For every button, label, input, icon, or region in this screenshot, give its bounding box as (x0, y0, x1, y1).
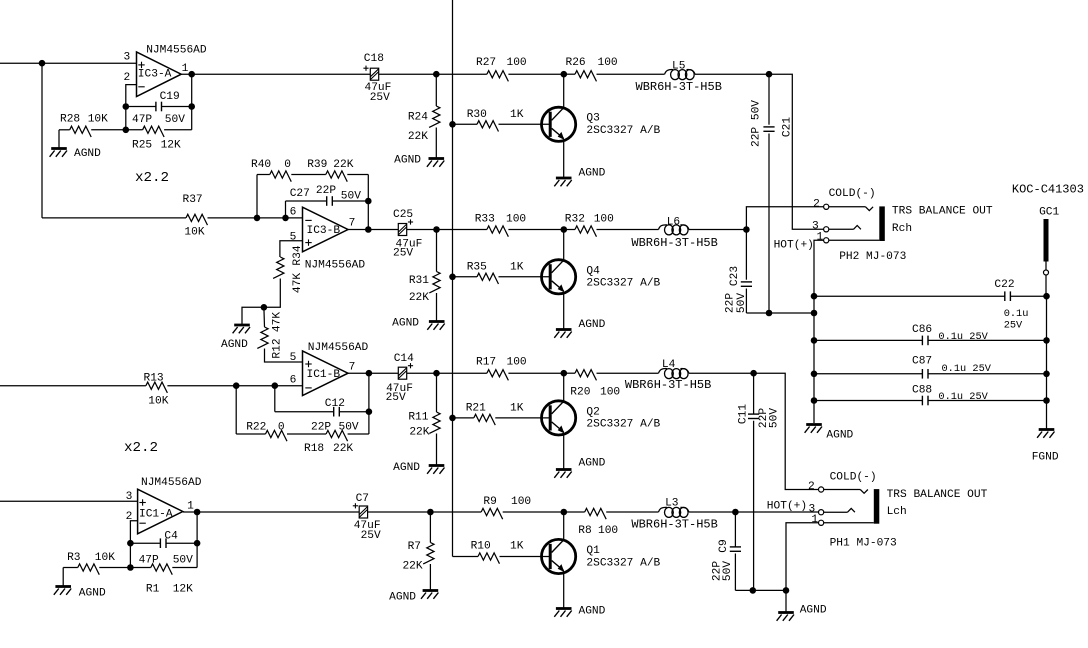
resistor R21 (449, 403, 550, 426)
svg-text:R13: R13 (144, 373, 164, 385)
node Rch ground row right (811, 310, 818, 317)
svg-text:C27: C27 (290, 188, 310, 200)
svg-text:25V: 25V (393, 248, 413, 260)
capacitor C21 (751, 74, 794, 313)
svg-text:R35: R35 (467, 262, 487, 274)
capacitor C14 (386, 353, 415, 404)
svg-text:100: 100 (506, 214, 526, 226)
svg-text:25V: 25V (386, 392, 406, 404)
resistor R22 (236, 386, 359, 442)
svg-text:AGND: AGND (74, 148, 101, 160)
svg-text:2SC3327 A/B: 2SC3327 A/B (586, 125, 660, 137)
svg-text:0.1u 25V: 0.1u 25V (938, 391, 988, 403)
ground AGND (Q3) (554, 168, 605, 187)
wire row2 to jack pin2 (746, 207, 823, 230)
wire pin2 col to R25 (125, 107, 127, 130)
capacitor C27 (286, 185, 369, 218)
svg-text:47P: 47P (139, 555, 159, 567)
svg-text:50V: 50V (722, 561, 734, 581)
wire pin1 to AGND (PH1) (785, 590, 787, 611)
svg-text:C88: C88 (912, 385, 932, 397)
resistor R31 (409, 230, 440, 321)
capacitor C88 (814, 385, 1047, 406)
svg-text:47P: 47P (132, 114, 152, 126)
svg-text:2: 2 (808, 481, 815, 493)
wire output to feedback (191, 74, 193, 106)
svg-text:NJM4556AD: NJM4556AD (305, 260, 366, 272)
ground AGND (Q2) (554, 458, 605, 478)
svg-text:12K: 12K (173, 584, 193, 596)
svg-text:0: 0 (278, 422, 285, 434)
svg-text:47K: 47K (272, 312, 284, 332)
svg-text:L3: L3 (665, 498, 678, 510)
svg-text:100: 100 (598, 57, 618, 69)
svg-text:R20: R20 (570, 387, 590, 399)
resistor R7 (402, 512, 434, 590)
svg-text:R40: R40 (251, 159, 271, 171)
resistor R12 (257, 307, 302, 362)
node row1 input junction (39, 60, 46, 67)
svg-text:1: 1 (187, 501, 194, 513)
svg-text:100: 100 (507, 57, 527, 69)
wire IC1-B output (348, 372, 398, 374)
node Lch ground row right (783, 587, 790, 594)
resistor R39 (291, 159, 368, 201)
svg-text:x2.2: x2.2 (135, 170, 169, 186)
svg-text:R26: R26 (566, 57, 586, 69)
svg-text:25V: 25V (1004, 320, 1023, 332)
wire feedback col IC3-B (367, 201, 369, 230)
svg-text:AGND: AGND (800, 605, 827, 617)
jack PH2 pin2 COLD (813, 188, 875, 211)
svg-text:AGND: AGND (579, 168, 606, 180)
svg-text:100: 100 (507, 357, 527, 369)
jack PH1 body (830, 489, 988, 549)
wire pin2 col to R1 (129, 543, 131, 567)
node Q4 collector (561, 226, 568, 233)
svg-text:50V: 50V (173, 555, 193, 567)
svg-text:100: 100 (511, 496, 531, 508)
svg-text:2SC3327 A/B: 2SC3327 A/B (586, 278, 660, 290)
wire IC1-A output (183, 511, 359, 514)
svg-text:R27: R27 (476, 57, 496, 69)
svg-text:25V: 25V (370, 92, 390, 104)
svg-text:1K: 1K (510, 541, 524, 553)
svg-text:22K: 22K (408, 131, 428, 143)
svg-text:AGND: AGND (579, 319, 606, 331)
capacitor C86 (814, 324, 1047, 345)
resistor R24 (408, 74, 440, 157)
svg-text:5: 5 (290, 232, 297, 244)
node R25 left (123, 127, 130, 134)
node C7 output (427, 509, 434, 516)
node Q2 collector (561, 370, 568, 377)
svg-text:100: 100 (600, 387, 620, 399)
wire row4 input (0, 500, 138, 502)
svg-text:Q2: Q2 (586, 406, 599, 418)
svg-text:L5: L5 (672, 61, 685, 73)
resistor R32 (564, 214, 659, 237)
wire row1 to jack pin3 (769, 74, 824, 229)
svg-text:C22: C22 (994, 279, 1014, 291)
resistor R1 (130, 543, 197, 595)
capacitor C87 (814, 356, 1047, 379)
svg-text:TRS BALANCE OUT: TRS BALANCE OUT (892, 205, 993, 217)
svg-text:R12: R12 (272, 338, 284, 358)
svg-text:22K: 22K (333, 443, 353, 455)
svg-text:22K: 22K (409, 292, 429, 304)
svg-text:10K: 10K (95, 552, 115, 564)
wire Lch ground row (735, 589, 786, 591)
jack PH1 pin1 sleeve (786, 514, 874, 591)
wire C25 to R33 (407, 229, 487, 231)
capacitor C22 (814, 279, 1047, 332)
resistor R20 (564, 370, 659, 399)
svg-text:AGND: AGND (392, 318, 419, 330)
capacitor C7 (353, 493, 381, 542)
svg-text:AGND: AGND (389, 592, 416, 604)
svg-text:10K: 10K (88, 114, 108, 126)
node C19 left (123, 103, 130, 110)
svg-text:IC1-B: IC1-B (307, 369, 341, 381)
resistor R25 (126, 107, 192, 152)
node C86 left (811, 337, 818, 344)
wire left bus to R37 (41, 63, 43, 218)
gain label x2.2 (upper) (135, 170, 169, 186)
svg-text:AGND: AGND (579, 606, 606, 618)
node C11 bottom (750, 587, 757, 594)
svg-text:x2.2: x2.2 (124, 440, 158, 456)
svg-text:Rch: Rch (892, 223, 912, 235)
ground AGND (IC3-B bias) (221, 307, 264, 351)
wire row1 input (0, 62, 137, 64)
svg-text:22K: 22K (333, 159, 353, 171)
resistor R9 (481, 496, 564, 519)
node C12 right (366, 408, 373, 415)
inductor L4 (625, 359, 754, 392)
svg-text:Q3: Q3 (586, 113, 599, 125)
svg-text:AGND: AGND (79, 588, 106, 600)
wire Rch ground row (746, 312, 814, 314)
svg-text:Lch: Lch (887, 506, 907, 518)
node C12 branch (272, 382, 279, 389)
svg-text:C4: C4 (164, 531, 178, 543)
op-amp U IC3-B (290, 207, 366, 272)
svg-text:2SC3327 A/B: 2SC3327 A/B (586, 557, 660, 569)
svg-text:C23: C23 (729, 266, 741, 286)
svg-text:1K: 1K (510, 109, 524, 121)
svg-text:12K: 12K (161, 140, 181, 152)
svg-text:L6: L6 (667, 217, 680, 229)
ground AGND (R11) (393, 462, 444, 474)
svg-text:10K: 10K (148, 396, 168, 408)
svg-text:R25: R25 (132, 140, 152, 152)
svg-text:C9: C9 (718, 539, 730, 552)
jack PH1 pin3 HOT (767, 500, 855, 515)
svg-text:50V: 50V (341, 191, 361, 203)
svg-text:R37: R37 (183, 194, 203, 206)
svg-text:1K: 1K (510, 403, 524, 415)
svg-text:WBR6H-3T-H5B: WBR6H-3T-H5B (636, 80, 722, 94)
capacitor C12 (275, 386, 369, 417)
wire IC3-B output (348, 229, 398, 231)
svg-text:AGND: AGND (221, 339, 248, 351)
wire AGND column (813, 296, 815, 423)
svg-text:R34: R34 (292, 245, 304, 265)
svg-text:0: 0 (284, 159, 291, 171)
resistor R3 (63, 552, 130, 575)
ground AGND (R7) (389, 591, 438, 604)
svg-text:AGND: AGND (394, 155, 421, 167)
node C86 right (1043, 337, 1050, 344)
svg-text:C25: C25 (393, 209, 413, 221)
svg-text:1: 1 (811, 514, 818, 526)
resistor R40 (251, 159, 291, 218)
node IC3-B output (365, 226, 372, 233)
svg-text:R3: R3 (67, 552, 80, 564)
resistor R17 (476, 357, 564, 381)
svg-text:NJM4556AD: NJM4556AD (308, 342, 369, 354)
node R40 branch (254, 215, 261, 222)
svg-text:47K: 47K (292, 273, 304, 293)
capacitor C9 (712, 512, 741, 590)
svg-text:R31: R31 (409, 275, 429, 287)
svg-text:0.1u 25V: 0.1u 25V (942, 363, 992, 375)
jack PH1 pin2 COLD (808, 471, 877, 493)
node row3 output (750, 370, 757, 377)
svg-text:COLD(-): COLD(-) (829, 188, 876, 200)
ground AGND (cap bank) (805, 425, 854, 442)
svg-text:AGND: AGND (393, 462, 420, 474)
node C21 branch (766, 71, 773, 78)
svg-text:R9: R9 (483, 496, 496, 508)
svg-text:50V: 50V (768, 408, 780, 428)
node Q1 collector (561, 509, 568, 516)
node C14 output (433, 370, 440, 377)
capacitor C4 (130, 531, 197, 567)
svg-text:GC1: GC1 (1039, 207, 1059, 219)
svg-text:PH1 MJ-073: PH1 MJ-073 (830, 537, 897, 549)
resistor R28 (59, 114, 126, 138)
svg-text:R1: R1 (146, 584, 160, 596)
svg-text:AGND: AGND (826, 430, 853, 442)
svg-text:HOT(+): HOT(+) (767, 500, 807, 512)
node C22 right (1043, 293, 1050, 300)
svg-text:R7: R7 (408, 541, 421, 553)
svg-text:C19: C19 (160, 91, 180, 103)
ground AGND (Q4) (554, 319, 605, 338)
svg-text:6: 6 (290, 207, 297, 219)
svg-text:C11: C11 (738, 404, 750, 424)
svg-text:22K: 22K (409, 426, 429, 438)
svg-text:R32: R32 (565, 214, 585, 226)
svg-text:6: 6 (290, 375, 297, 387)
svg-text:R8: R8 (578, 525, 591, 537)
svg-text:TRS BALANCE OUT: TRS BALANCE OUT (887, 489, 988, 501)
node C18 output (433, 71, 440, 78)
capacitor C23 (725, 230, 753, 314)
capacitor C18 (363, 53, 391, 104)
resistor R10 (453, 541, 551, 564)
wire output to feedback (IC1-A) (196, 512, 198, 543)
transistor Q2 (542, 373, 661, 468)
node IC1-B output (366, 370, 373, 377)
node C19 right (188, 103, 195, 110)
svg-text:C87: C87 (912, 356, 932, 368)
ground AGND (R31) (392, 318, 445, 330)
node C22 left (811, 293, 818, 300)
node C87 left (811, 371, 818, 378)
svg-text:C14: C14 (394, 353, 414, 365)
node C4 right (194, 540, 201, 547)
svg-text:Q1: Q1 (586, 545, 600, 557)
svg-text:25V: 25V (361, 530, 381, 542)
node row2 output (743, 226, 750, 233)
svg-text:C86: C86 (912, 324, 932, 336)
transistor Q1 (542, 512, 661, 608)
svg-text:22K: 22K (402, 561, 422, 573)
node C87 right (1043, 371, 1050, 378)
svg-text:HOT(+): HOT(+) (774, 239, 814, 251)
svg-text:R21: R21 (466, 403, 486, 415)
node C4 left (127, 540, 134, 547)
svg-text:C18: C18 (364, 53, 384, 65)
svg-text:R10: R10 (471, 541, 491, 553)
capacitor C25 (393, 209, 422, 260)
wire C18 to R27 (379, 73, 487, 75)
svg-text:3: 3 (123, 52, 130, 64)
svg-text:R28: R28 (60, 114, 80, 126)
ground FGND (1032, 430, 1059, 464)
op-amp U IC1-B (290, 342, 369, 396)
wire C7 to R9 (368, 511, 482, 513)
ground AGND (R3) (54, 568, 106, 600)
svg-text:WBR6H-3T-H5B: WBR6H-3T-H5B (631, 236, 717, 250)
svg-text:C7: C7 (356, 493, 369, 505)
resistor R27 (476, 57, 564, 81)
svg-text:IC3-A: IC3-A (138, 68, 172, 80)
node C88 right (1043, 397, 1050, 404)
svg-text:5: 5 (290, 352, 297, 364)
ground AGND (Q1) (554, 606, 605, 618)
node C88 left (811, 397, 818, 404)
resistor R37 (42, 194, 303, 239)
svg-text:100: 100 (594, 214, 614, 226)
wire C14 to R17 (407, 372, 487, 374)
svg-text:R30: R30 (467, 109, 487, 121)
node Q3 collector (561, 71, 568, 78)
wire pin2 IC3-A (126, 85, 137, 107)
svg-text:7: 7 (349, 362, 356, 374)
svg-text:1K: 1K (510, 262, 524, 274)
node R1 left (127, 564, 134, 571)
svg-text:NJM4556AD: NJM4556AD (146, 44, 207, 56)
svg-text:FGND: FGND (1032, 452, 1059, 464)
wire row3 to jack pin2 (754, 373, 819, 489)
svg-text:R17: R17 (476, 357, 496, 369)
svg-text:3: 3 (126, 491, 133, 503)
inductor L3 (631, 498, 818, 532)
resistor R33 (475, 214, 564, 237)
resistor R8 (564, 508, 659, 536)
node C27 right (365, 198, 372, 205)
node C9 branch (732, 509, 739, 516)
wire pin5 IC3-B (280, 241, 303, 257)
op-amp U IC3-A (123, 44, 206, 96)
jack PH2 pin3 HOT (774, 221, 861, 252)
resistor R11 (408, 373, 440, 464)
svg-text:100: 100 (598, 525, 618, 537)
capacitor C19 (126, 91, 192, 126)
resistor R26 (564, 57, 618, 81)
svg-text:R39: R39 (307, 159, 327, 171)
resistor R34 (264, 245, 304, 307)
svg-text:R18: R18 (304, 443, 324, 455)
node IC1-A output (194, 509, 201, 516)
svg-text:0.1u 25V: 0.1u 25V (938, 331, 988, 343)
node IC3-A output (188, 71, 195, 78)
inductor L5 (597, 61, 770, 95)
svg-text:WBR6H-3T-H5B: WBR6H-3T-H5B (625, 378, 711, 392)
svg-text:R11: R11 (408, 411, 428, 423)
wire IC3-A output (181, 73, 370, 75)
svg-text:PH2 MJ-073: PH2 MJ-073 (839, 251, 906, 263)
svg-text:C21: C21 (782, 117, 794, 137)
svg-text:R33: R33 (475, 214, 495, 226)
transistor Q3 (542, 74, 661, 177)
svg-text:2SC3327 A/B: 2SC3327 A/B (586, 419, 660, 431)
svg-text:KOC-C41303: KOC-C41303 (1012, 182, 1084, 196)
svg-text:22P: 22P (725, 293, 737, 313)
svg-text:WBR6H-3T-H5B: WBR6H-3T-H5B (631, 517, 717, 531)
svg-text:50V: 50V (736, 293, 748, 313)
node C27 branch (282, 215, 289, 222)
svg-text:2: 2 (123, 72, 130, 84)
svg-text:Q4: Q4 (586, 265, 600, 277)
svg-text:IC1-A: IC1-A (139, 509, 173, 521)
svg-text:1: 1 (816, 231, 823, 243)
node C25 output (433, 226, 440, 233)
svg-text:R22: R22 (246, 422, 266, 434)
gain label x2.2 (lower) (124, 440, 158, 456)
svg-text:C12: C12 (325, 398, 345, 410)
connector GC1 (1012, 182, 1084, 275)
resistor R13 (0, 373, 303, 408)
svg-text:10K: 10K (184, 227, 204, 239)
svg-text:0.1u: 0.1u (1004, 308, 1029, 320)
svg-text:COLD(-): COLD(-) (830, 471, 877, 483)
svg-text:R24: R24 (408, 112, 428, 124)
inductor L6 (631, 217, 746, 251)
svg-text:22P 50V: 22P 50V (751, 100, 763, 147)
jack PH2 body (839, 205, 993, 263)
svg-text:1: 1 (182, 63, 189, 75)
ground AGND (R24) (394, 155, 444, 167)
resistor R30 (449, 109, 550, 132)
capacitor C11 (738, 373, 781, 590)
node R34/R12 junction (261, 304, 268, 311)
main bus vertical (452, 0, 454, 557)
svg-text:IC3-B: IC3-B (307, 225, 341, 237)
svg-text:50V: 50V (165, 114, 185, 126)
svg-text:7: 7 (349, 218, 356, 230)
ground AGND (R28) (50, 130, 102, 160)
jack PH2 pin1 sleeve (814, 231, 879, 296)
svg-text:L4: L4 (662, 359, 676, 371)
transistor Q4 (542, 230, 661, 329)
node C21 bottom (766, 310, 773, 317)
svg-text:2: 2 (813, 198, 820, 210)
